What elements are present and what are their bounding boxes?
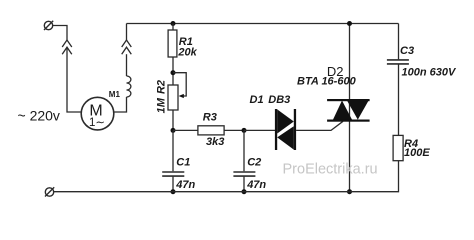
diac D1 xyxy=(275,109,296,150)
svg-text:C2: C2 xyxy=(247,157,261,169)
wire C1 node down to C1 xyxy=(172,130,174,171)
connector arrow (right, double chevron) xyxy=(122,40,132,54)
svg-text:DB3: DB3 xyxy=(268,94,290,106)
wire R4 to bottom rail xyxy=(54,161,399,192)
label R3 value xyxy=(203,112,225,148)
svg-text:47n: 47n xyxy=(246,179,266,191)
triac D2 xyxy=(327,99,370,122)
label C3 value xyxy=(400,45,457,78)
capacitor C1 xyxy=(162,172,184,176)
capacitor C3 xyxy=(387,60,409,64)
svg-text:47n: 47n xyxy=(175,179,195,191)
node: triac/bottom rail xyxy=(347,189,352,194)
wire from motor to coil xyxy=(114,97,127,112)
top rail wire xyxy=(127,23,399,25)
potentiometer R2 xyxy=(168,85,184,110)
wire top rail down right branch xyxy=(398,24,400,60)
svg-text:M1: M1 xyxy=(109,90,121,99)
wire node to R3 xyxy=(173,129,198,131)
svg-text:1∼: 1∼ xyxy=(89,117,105,129)
wire R1 to R2 xyxy=(172,57,174,85)
svg-text:C1: C1 xyxy=(176,157,190,169)
capacitor C2 xyxy=(233,172,255,176)
triac D2 vertical wire xyxy=(349,24,351,192)
wire C2 node down to C2 xyxy=(243,130,245,171)
motor M1 xyxy=(81,97,114,130)
label C1 value xyxy=(175,157,195,191)
node: R1/R2 junction xyxy=(171,70,176,75)
wire R2 down to node xyxy=(172,110,174,130)
svg-text:ProElectrika.ru: ProElectrika.ru xyxy=(283,161,378,177)
label C2 value xyxy=(246,157,266,191)
wire: R2 wiper link xyxy=(173,73,186,96)
inductor (motor field coil) xyxy=(127,76,131,97)
wire diac to triac gate xyxy=(296,121,343,130)
wire C3 to R4 xyxy=(398,64,400,135)
svg-text:R2: R2 xyxy=(156,80,168,94)
svg-text:R3: R3 xyxy=(203,112,217,124)
svg-text:100n 630V: 100n 630V xyxy=(402,66,457,78)
terminal X1 (top-left plug) xyxy=(44,21,53,30)
label R4 value xyxy=(404,138,430,159)
wire C1 to bottom rail xyxy=(172,177,174,192)
node: R3/C2/diac junction xyxy=(242,128,247,133)
node: triac/top rail xyxy=(347,21,352,26)
wire R3 to C2 node xyxy=(224,129,244,131)
svg-text:20k: 20k xyxy=(177,47,197,59)
node: C1/bottom rail xyxy=(171,189,176,194)
node: R2/R3/C1 junction xyxy=(171,128,176,133)
resistor R3 xyxy=(198,126,224,135)
svg-text:100E: 100E xyxy=(404,147,430,159)
resistor R1 xyxy=(168,30,177,57)
svg-text:3k3: 3k3 xyxy=(206,136,224,148)
svg-text:D1: D1 xyxy=(250,94,264,106)
wire top rail to R1 xyxy=(172,24,174,31)
wire right arrow up to top rail xyxy=(126,24,128,41)
resistor R4 xyxy=(393,135,403,160)
label R2 value (rotated) xyxy=(156,80,168,113)
svg-text:1M: 1M xyxy=(156,97,168,113)
wire C2 to bottom rail xyxy=(243,177,245,192)
connector arrow (left, double chevron) xyxy=(62,40,72,54)
svg-text:BTA 16-600: BTA 16-600 xyxy=(297,75,357,87)
wire from X1 to left arrow xyxy=(53,26,67,41)
label R1 value xyxy=(177,36,197,59)
wire from coil to right arrow xyxy=(126,54,128,76)
node: C2/bottom rail xyxy=(242,189,247,194)
wire node to diac xyxy=(244,129,275,131)
wire from left arrow down to motor xyxy=(67,47,81,112)
node: top rail / R1 xyxy=(171,21,176,26)
svg-text:C3: C3 xyxy=(400,45,414,57)
svg-text:~ 220v: ~ 220v xyxy=(18,108,60,124)
terminal X2 (bottom-left plug) xyxy=(45,187,54,196)
